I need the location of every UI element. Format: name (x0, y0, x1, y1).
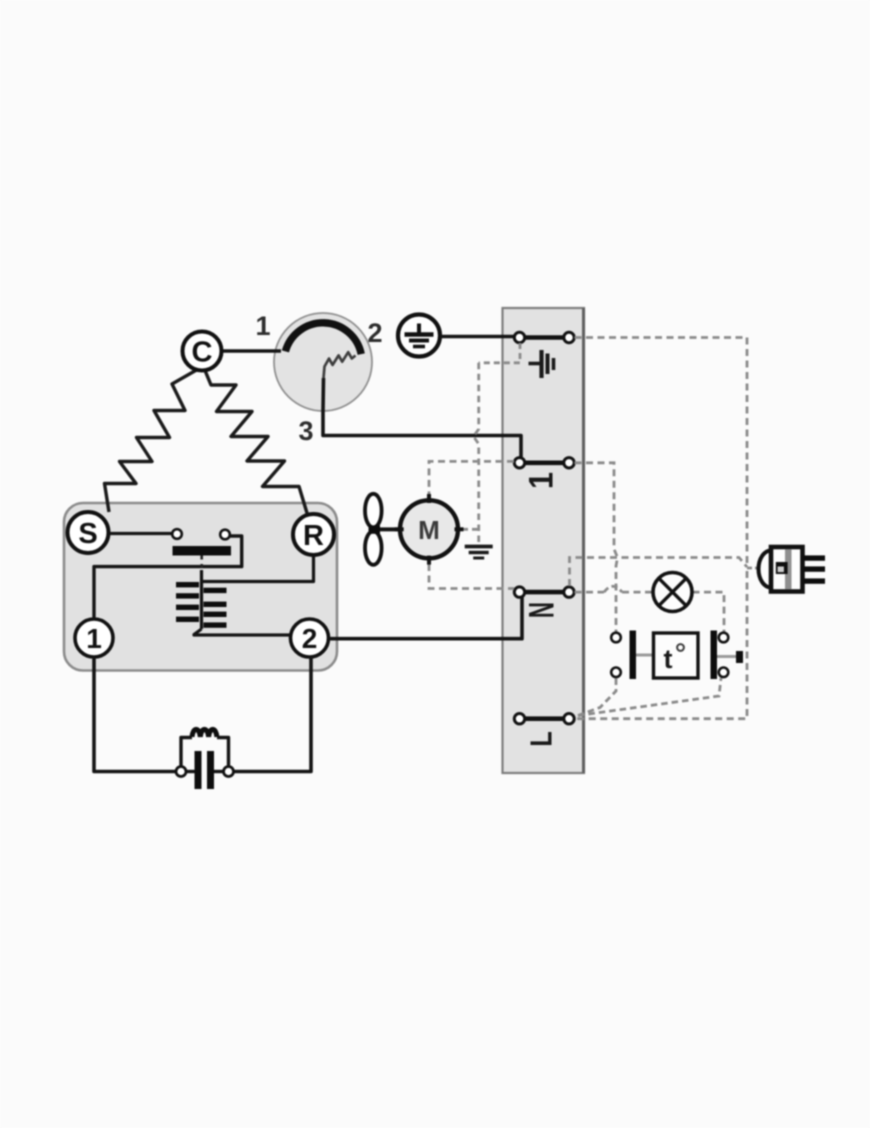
wire relay coil to R (202, 556, 314, 582)
board terminal pair N (514, 587, 574, 597)
dashed L wire board to plug (575, 568, 758, 719)
wire earth circle to board (441, 335, 517, 339)
fan blades (365, 494, 401, 565)
board terminal pair 1 (514, 458, 574, 468)
fan motor chassis ground (465, 547, 493, 559)
start winding C-S (105, 368, 201, 512)
wire relay contact to terminal 1 (94, 536, 242, 619)
dashed wire L to thermostat right bottom (578, 678, 721, 716)
thermostat right contacts (711, 631, 744, 680)
board terminal pair L (514, 714, 574, 724)
run capacitor plates (186, 751, 224, 789)
terminal board strip (503, 308, 585, 773)
svg-text:1: 1 (522, 472, 560, 489)
fan motor dashed wire to terminal N (429, 564, 514, 589)
earth electrode symbol in circle (398, 315, 440, 357)
svg-text:1: 1 (86, 623, 102, 654)
thermal protector body (274, 313, 372, 411)
run winding C-R (204, 368, 307, 513)
protector heater resistor (324, 352, 356, 378)
dashed stub motor to ground wire (462, 528, 479, 531)
wire relay coil to terminal 2 (194, 629, 290, 635)
wire S to relay contact (109, 532, 173, 535)
wire C to protector pin 1 (221, 349, 281, 352)
dashed N rail to plug (570, 558, 748, 587)
earth dashed wire from board to fan motor ground (474, 343, 521, 542)
interior lamp (653, 573, 692, 612)
fan motor dashed wire to terminal 1 (429, 461, 514, 495)
svg-text:S: S (78, 518, 97, 550)
svg-text:1: 1 (255, 311, 270, 341)
relay terminal 1 (75, 619, 113, 657)
svg-text:2: 2 (302, 623, 318, 654)
svg-text:3: 3 (298, 416, 313, 446)
wire terminal 2 to capacitor (234, 656, 312, 772)
relay coil (176, 570, 227, 629)
dashed wire terminal 1 to thermostat left top (575, 463, 618, 632)
svg-text:L: L (524, 731, 559, 747)
relay contact right (220, 530, 230, 540)
svg-text:N: N (522, 602, 561, 618)
dashed earth wire board to plug (575, 338, 748, 566)
mains plug (759, 547, 826, 592)
relay terminal R (293, 514, 334, 555)
relay armature link (200, 556, 203, 579)
svg-text:2: 2 (367, 318, 382, 348)
relay terminal 2 (291, 619, 329, 657)
fan motor M (395, 494, 464, 565)
relay contact bar (173, 546, 232, 556)
dashed wire N to lamp with hop (575, 586, 653, 592)
svg-text:C: C (192, 337, 213, 369)
board terminal pair earth (514, 332, 574, 342)
wire relay 2 to board terminal N (329, 594, 523, 639)
wire terminal 1 to capacitor (94, 657, 176, 772)
start relay box (64, 503, 337, 671)
capacitor terminal right (224, 767, 234, 777)
compressor common terminal C (183, 332, 222, 371)
svg-text:t: t (664, 644, 673, 674)
svg-text:M: M (418, 515, 440, 545)
board earth label (529, 350, 554, 378)
thermostat body t° (654, 633, 699, 678)
wire protector pin 3 to board terminal 1 (323, 378, 521, 458)
capacitor bleed coil branch (181, 729, 229, 766)
thermostat left contacts (611, 631, 653, 680)
relay terminal S (68, 512, 109, 553)
relay contact left (172, 529, 182, 539)
dashed wire lamp to thermostat right top (693, 592, 725, 632)
protector bimetal arc (285, 323, 361, 354)
capacitor terminal left (176, 767, 186, 777)
svg-text:R: R (303, 520, 324, 552)
dashed wire thermostat left bottom to L (578, 679, 616, 716)
